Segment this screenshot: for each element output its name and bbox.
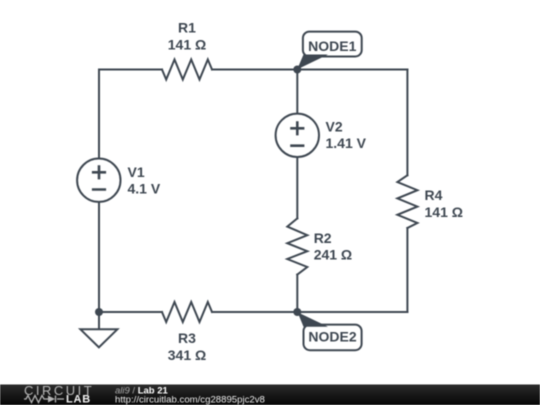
svg-text:NODE1: NODE1: [308, 38, 356, 54]
wire middle vertical (R2 down to NODE2): [296, 275, 298, 312]
resistor R3: [162, 302, 212, 322]
svg-text:http://circuitlab.com/cg28895p: http://circuitlab.com/cg28895pjc2v8: [115, 395, 265, 405]
svg-text:R4: R4: [425, 187, 443, 203]
wire right vertical (top corner down to R4): [406, 70, 408, 176]
svg-text:R3: R3: [178, 330, 196, 346]
node NODE2 flag: [298, 312, 362, 350]
wire top-left horizontal (left node to R1): [99, 69, 162, 71]
junction dot NODE2: [293, 308, 301, 316]
svg-text:NODE2: NODE2: [308, 328, 356, 344]
wire middle vertical (NODE1 down to V2 plus terminal): [296, 70, 298, 114]
svg-text:V2: V2: [326, 119, 343, 135]
resistor R1: [162, 60, 212, 80]
svg-text:141 Ω: 141 Ω: [168, 37, 206, 53]
svg-text:4.1 V: 4.1 V: [128, 180, 161, 196]
wire middle vertical (V2 minus terminal down to R2): [296, 157, 298, 218]
wire right vertical (R4 down to bottom right corner): [406, 228, 408, 312]
junction dot ground node: [95, 308, 103, 316]
resistor R2: [287, 218, 307, 274]
CircuitLab logo resistor-diode glyph: [24, 396, 64, 403]
wire ground stub: [98, 312, 100, 329]
svg-text:V1: V1: [128, 164, 145, 180]
wire left vertical (top corner down to V1 plus terminal): [98, 70, 100, 159]
svg-text:R1: R1: [178, 20, 196, 36]
footer bar: [0, 385, 540, 405]
svg-text:R2: R2: [314, 230, 332, 246]
wire bottom horizontal (R3 to ground junction): [99, 311, 162, 313]
junction dot NODE1: [293, 66, 301, 74]
ground symbol: [80, 329, 117, 347]
svg-text:141 Ω: 141 Ω: [425, 204, 463, 220]
wire top horizontal (R1 to NODE1 to right corner): [212, 69, 407, 71]
svg-text:241 Ω: 241 Ω: [314, 247, 352, 263]
svg-text:LAB: LAB: [66, 394, 91, 405]
wire bottom horizontal (right corner to NODE2 to R3): [212, 311, 407, 313]
svg-text:341 Ω: 341 Ω: [168, 347, 206, 363]
node NODE1 flag: [297, 32, 361, 70]
voltage source V2: [276, 114, 319, 157]
svg-text:1.41 V: 1.41 V: [326, 135, 367, 151]
voltage source V1: [77, 159, 120, 202]
wire left vertical (V1 minus terminal down to bottom wire): [98, 202, 100, 312]
resistor R4: [397, 175, 417, 228]
